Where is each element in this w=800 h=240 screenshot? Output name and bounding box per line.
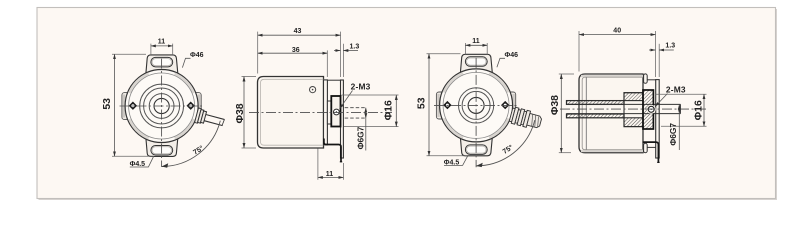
svg-text:36: 36 xyxy=(292,47,300,54)
svg-text:53: 53 xyxy=(416,97,427,109)
svg-text:1.3: 1.3 xyxy=(665,42,675,49)
svg-text:11: 11 xyxy=(158,39,166,46)
svg-text:Φ6G7: Φ6G7 xyxy=(668,123,678,146)
svg-text:Φ38: Φ38 xyxy=(550,95,561,115)
svg-text:Φ38: Φ38 xyxy=(235,103,246,123)
svg-text:2-M3: 2-M3 xyxy=(351,82,371,92)
svg-text:2-M3: 2-M3 xyxy=(666,84,686,94)
svg-text:Φ46: Φ46 xyxy=(505,52,519,59)
svg-text:11: 11 xyxy=(326,171,334,178)
svg-text:Φ6G7: Φ6G7 xyxy=(355,126,365,149)
svg-text:40: 40 xyxy=(613,28,621,35)
svg-text:11: 11 xyxy=(472,38,480,45)
svg-text:Φ16: Φ16 xyxy=(694,100,705,120)
svg-text:Φ46: Φ46 xyxy=(190,52,204,59)
svg-text:Φ16: Φ16 xyxy=(383,100,394,120)
svg-text:43: 43 xyxy=(294,28,302,35)
svg-text:53: 53 xyxy=(102,98,113,110)
svg-text:1.3: 1.3 xyxy=(350,44,360,51)
